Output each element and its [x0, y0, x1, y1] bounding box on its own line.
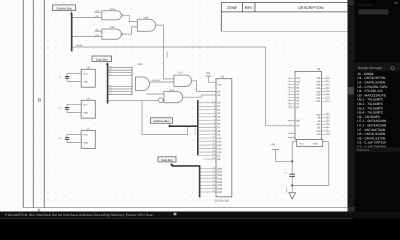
svg-text:+5V: +5V — [271, 143, 276, 146]
svg-text:OE: OE — [217, 90, 221, 93]
vertical scrollbar up button — [348, 1, 353, 6]
IC U3 RAM body — [295, 71, 322, 139]
wire data bus fan row A4 — [109, 88, 132, 90]
svg-text:U8.1: U8.1 — [138, 63, 144, 66]
svg-text:IO1: IO1 — [317, 100, 322, 103]
EPROM data pin D7 — [201, 191, 217, 193]
wire IOR from bus to gate U7.4 — [73, 17, 102, 19]
RAM left pin A7 — [288, 84, 295, 86]
RAM left pin A0 — [288, 106, 295, 108]
wire stub upper input U6.1 — [95, 30, 102, 32]
svg-text:B: B — [38, 98, 41, 103]
RAM right pin A8 — [322, 117, 330, 119]
svg-text:AEN: AEN — [95, 29, 100, 32]
panel top-right dash — [395, 2, 398, 4]
junction dot data bus lower — [171, 164, 173, 166]
EPROM address pin A8 — [199, 130, 216, 132]
RAM right pin OE — [322, 127, 330, 129]
wire U7.4 output to U6.2 — [124, 15, 138, 21]
wire label stub to control bus — [71, 10, 73, 13]
EPROM data pin D4 — [201, 181, 217, 183]
net label box Data Bus lower — [158, 157, 176, 162]
EPROM control pin row CE2 — [199, 155, 216, 157]
revision table bottom line — [221, 30, 347, 32]
power symbol +5V EPROM — [206, 75, 212, 77]
svg-text:C4: C4 — [284, 171, 286, 174]
wire U1 VCC pin — [75, 103, 81, 105]
RAM left pin A12 — [288, 81, 295, 83]
EPROM address pin A9 — [199, 133, 216, 135]
net label box Control Bus — [53, 5, 76, 10]
svg-text:DESCRIPTION: DESCRIPTION — [298, 6, 324, 10]
tab bar scroll arrow — [174, 213, 177, 216]
svg-text:A8: A8 — [109, 68, 111, 71]
stub from Data Bus label — [106, 61, 108, 63]
wire U1 GND pin — [75, 111, 81, 113]
gate U8.1 eight-input nand input bar — [131, 67, 133, 96]
svg-text:ROM_SEL: ROM_SEL — [152, 79, 161, 82]
wire from data bus to U7.3 inverted input — [109, 99, 159, 101]
Design Manager icon — [391, 67, 394, 70]
RAM left pin A1 — [288, 103, 295, 105]
junction dot control bus — [70, 13, 72, 15]
wire U7 VCC pin — [75, 134, 81, 136]
svg-text:Part pins: Part pins — [357, 148, 370, 152]
EPROM address pin A0 — [199, 102, 216, 104]
RAM power box VCC GND — [297, 140, 323, 147]
EPROM data pin D5 — [201, 184, 217, 186]
svg-text:MEMW: MEMW — [76, 44, 82, 47]
wire data bus fan row A9 — [109, 67, 132, 69]
EPROM address pin A2 — [199, 109, 216, 111]
EPROM address pin A14 — [199, 151, 216, 153]
svg-text:VCC: VCC — [83, 103, 88, 106]
svg-text:U7.2: U7.2 — [178, 72, 184, 75]
wire MEMW long from control bus to RAM CS — [73, 47, 295, 126]
svg-text:MEMR: MEMR — [166, 52, 169, 59]
RAM right pin IO4 — [322, 91, 330, 93]
wire data bus fan row A3 — [109, 91, 132, 93]
scrollbar corner block — [348, 207, 355, 212]
RAM left lower stub 1 — [288, 132, 295, 134]
RAM left pin A3 — [288, 97, 295, 99]
RAM right pin A11 — [322, 123, 330, 125]
svg-text:GND: GND — [83, 111, 88, 114]
sheet border line middle — [32, 0, 34, 208]
stub from Data Bus lower label — [171, 162, 173, 164]
sheet border line left inner — [22, 0, 24, 208]
svg-text:Design Manager: Design Manager — [358, 66, 384, 70]
svg-text:Data Bus: Data Bus — [161, 159, 173, 162]
RAM left pin A4 — [288, 93, 295, 95]
EPROM address pin A7 — [199, 126, 216, 128]
svg-text:A4: A4 — [109, 87, 111, 90]
EPROM address pin A12 — [199, 144, 216, 146]
RAM right pin IO3 — [322, 94, 330, 96]
svg-text:A7: A7 — [109, 70, 111, 73]
RAM left pin WE stub — [288, 120, 295, 122]
RAM right pin IO6 — [322, 84, 330, 86]
data bus vertical upper — [107, 64, 109, 104]
wire loop from U7.3 input down to address bus corner — [142, 100, 188, 134]
RAM right pin A10 — [322, 130, 330, 132]
net label box Address Bus — [150, 118, 172, 123]
wire +5V to EPROM VPP — [208, 76, 216, 82]
wire U6.1 output to U6.2 — [123, 27, 137, 34]
EPROM address pin A4 — [199, 116, 216, 118]
wire capacitor to ground rail — [291, 176, 293, 185]
wire +5V down and right to VCC net — [276, 150, 293, 162]
wire U6 GND pin — [75, 80, 81, 82]
wire data bus fan row A2 — [109, 93, 132, 95]
RAM left pin A2 — [288, 100, 295, 102]
stub from Address Bus label — [169, 123, 171, 125]
wire U7.2 output to EPROM OE — [192, 81, 216, 92]
svg-text:PIA/UART/IO ISA Interface: PIA/UART/IO ISA Interface Serial Interfa… — [5, 213, 153, 217]
revision table REV/DESCRIPTION divider — [254, 3, 256, 12]
svg-text:DO7: DO7 — [217, 191, 223, 194]
vertical scrollbar track — [348, 0, 355, 212]
junction dot data bus — [106, 63, 108, 65]
svg-text:Address Bus: Address Bus — [153, 119, 170, 123]
RAM right pin A9 — [322, 120, 330, 122]
svg-text:CE: CE — [217, 94, 221, 97]
wire IOW from bus to gate U6.1 — [73, 36, 102, 38]
EPROM address pin A5 — [199, 119, 216, 121]
Design Manager title bar — [355, 62, 400, 71]
svg-text:GND: GND — [313, 143, 318, 146]
svg-text:A5: A5 — [109, 84, 111, 87]
status tab bar — [0, 212, 400, 218]
vertical scrollbar thumb — [348, 87, 353, 95]
RAM right pin IO7 — [322, 81, 330, 83]
svg-text:+5V: +5V — [206, 72, 211, 75]
revision table header underline — [221, 11, 347, 13]
bottom window strip — [0, 218, 353, 219]
right dark panel background — [355, 0, 400, 219]
RAM right pin CS — [322, 133, 330, 135]
wire ground rail up to GND pin — [328, 142, 330, 186]
svg-text:Control Bus: Control Bus — [56, 6, 72, 10]
sheet border bottom line — [23, 207, 347, 209]
junction dot address bus — [169, 125, 171, 127]
svg-text:VPP: VPP — [217, 84, 222, 87]
sheet border line outer — [43, 0, 45, 208]
svg-text:VCC: VCC — [299, 143, 304, 146]
EPROM address pin A3 — [199, 112, 216, 114]
control bus vertical — [71, 13, 73, 51]
EPROM address pin A11 — [199, 141, 216, 143]
EPROM address pin A6 — [199, 123, 216, 125]
wire VCC vertical to capacitor — [291, 142, 293, 174]
svg-text:A2: A2 — [109, 92, 111, 95]
svg-text:GND: GND — [83, 80, 88, 83]
svg-text:AEN: AEN — [95, 10, 100, 13]
EPROM data pin D0 — [201, 168, 217, 170]
ground rail wire — [292, 185, 329, 187]
svg-text:VCC: VCC — [83, 134, 88, 137]
svg-text:IOW: IOW — [95, 34, 99, 37]
ground symbol — [291, 186, 293, 193]
svg-text:WE: WE — [296, 120, 300, 123]
RAM left pin A14 — [288, 77, 295, 79]
panel dropdown bar — [358, 9, 388, 14]
svg-text:ZONE: ZONE — [227, 6, 238, 10]
IC U4 EPROM body — [216, 79, 232, 197]
address bus horizontal — [170, 125, 198, 127]
wire U6.2 output going right then down to U7.2 — [156, 25, 174, 79]
EPROM data pin D3 — [201, 178, 217, 180]
wire stub upper input U7.3 — [146, 93, 164, 95]
wire data bus fan row A5 — [109, 85, 132, 87]
RAM right pin IO8 — [322, 77, 330, 79]
data bus lower vertical — [199, 166, 201, 198]
EPROM control pin row OE2 — [204, 158, 217, 160]
RAM left pin A6 — [288, 87, 295, 89]
RAM GND pin stub right — [323, 141, 329, 143]
RAM left lower stub 2 — [288, 137, 295, 139]
RAM right pin IO2 — [322, 97, 330, 99]
svg-text:CE: CE — [296, 125, 300, 128]
address bus vertical at EPROM — [197, 100, 199, 155]
EPROM data pin D6 — [201, 188, 217, 190]
RAM left pin A5 — [288, 90, 295, 92]
svg-text:GND: GND — [83, 142, 88, 145]
svg-text:27C256-128: 27C256-128 — [214, 199, 229, 202]
EPROM address pin A10 — [199, 137, 216, 139]
wire data bus fan row A7 — [109, 72, 132, 74]
data bus lower horizontal — [172, 165, 201, 167]
junction dot ground rail — [291, 185, 293, 187]
wire U7 GND pin — [75, 142, 81, 144]
revision table left border — [220, 3, 222, 32]
junction dot VCC net — [291, 160, 293, 162]
svg-text:Data Bus: Data Bus — [96, 57, 108, 61]
svg-text:A[0..19]: A[0..19] — [194, 129, 197, 136]
net label box Data Bus upper — [92, 56, 112, 61]
wire data bus fan row A8 — [109, 69, 132, 71]
revision table top line — [221, 2, 347, 4]
IC U1 power part body — [81, 100, 95, 118]
RAM right pin IO5 — [322, 87, 330, 89]
svg-text:VCC: VCC — [83, 72, 88, 75]
IC U6 power part body — [81, 69, 95, 87]
svg-text:DGND: DGND — [285, 188, 288, 194]
EPROM address pin A1 — [199, 105, 216, 107]
EPROM data pin D1 — [201, 171, 217, 173]
schematic sheet background — [0, 0, 348, 212]
wire data bus fan row A6 — [109, 74, 132, 76]
svg-text:A9: A9 — [109, 65, 111, 68]
RAM VCC pin stub left — [292, 141, 297, 143]
svg-text:A6: A6 — [109, 73, 111, 76]
svg-text:CS: CS — [317, 133, 321, 136]
svg-text:REV: REV — [245, 6, 253, 10]
wire U7.3 output to EPROM CE — [183, 95, 216, 97]
EPROM data pin D2 — [201, 174, 217, 176]
EPROM address pin A13 — [199, 148, 216, 150]
svg-text:A3: A3 — [109, 89, 111, 92]
wire U6 VCC pin — [75, 72, 81, 74]
RAM right pin IO1 — [322, 100, 330, 102]
revision table ZONE/REV divider — [242, 3, 244, 12]
RAM right pin A13 — [322, 114, 330, 116]
Part pins section bar — [355, 147, 400, 152]
wire U8.1 output ROM_SEL to U7.2 — [150, 81, 174, 83]
svg-text:OE: OE — [217, 158, 221, 161]
IC U7 power part body — [81, 131, 95, 149]
svg-text:Properties: Properties — [358, 3, 373, 7]
wire stub upper input U7.4 — [95, 11, 102, 13]
